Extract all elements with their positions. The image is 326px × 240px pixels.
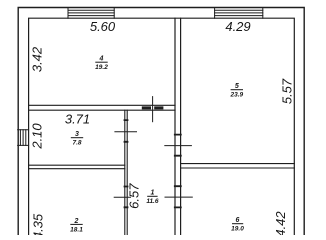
room labels xyxy=(95,56,108,72)
svg-text:4: 4 xyxy=(99,56,104,63)
svg-text:2.10: 2.10 xyxy=(29,123,44,150)
svg-text:3.71: 3.71 xyxy=(65,111,90,126)
partition room3/corridor xyxy=(125,110,127,235)
inner wall outline xyxy=(29,18,295,235)
wall room5/room6 xyxy=(181,164,295,168)
svg-text:23.9: 23.9 xyxy=(229,92,243,99)
svg-text:4.42: 4.42 xyxy=(273,211,288,235)
window W3 left wall (room3) xyxy=(18,130,29,146)
svg-text:3: 3 xyxy=(75,131,79,138)
svg-text:19.2: 19.2 xyxy=(95,64,108,71)
svg-text:5: 5 xyxy=(235,83,239,90)
svg-text:6: 6 xyxy=(236,217,240,224)
svg-text:18.1: 18.1 xyxy=(70,226,83,233)
svg-text:1: 1 xyxy=(150,190,154,197)
svg-text:5.60: 5.60 xyxy=(90,19,116,34)
svg-text:4.29: 4.29 xyxy=(225,19,250,34)
svg-text:11.6: 11.6 xyxy=(146,198,159,205)
window W1 top wall (room4) xyxy=(68,8,114,19)
window W2 top wall (room5) xyxy=(215,8,263,19)
wall room4 / room3+corridor top xyxy=(29,105,175,110)
svg-text:7.8: 7.8 xyxy=(72,140,81,147)
door D1 room4-corridor xyxy=(142,96,164,122)
svg-text:5.57: 5.57 xyxy=(279,78,294,104)
svg-text:4.35: 4.35 xyxy=(30,213,45,235)
door D3 corridor-room5 xyxy=(164,135,192,156)
svg-text:6.57: 6.57 xyxy=(127,183,142,209)
wall room3/room2 xyxy=(29,165,125,169)
door D4 corridor-room2 xyxy=(114,187,131,208)
svg-text:3.42: 3.42 xyxy=(29,46,44,72)
svg-text:19.0: 19.0 xyxy=(231,226,244,233)
svg-text:2: 2 xyxy=(74,218,79,225)
door D2 room3-corridor xyxy=(114,120,137,142)
door D5 corridor-room6 xyxy=(165,186,193,207)
wall between room4/room5 and corridor/room6 xyxy=(175,18,181,235)
